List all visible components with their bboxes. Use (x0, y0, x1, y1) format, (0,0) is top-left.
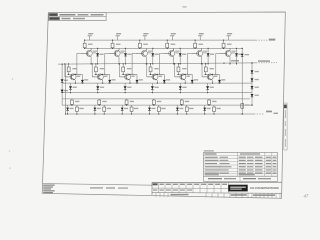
node collector junction 5 (195, 48, 196, 49)
wire base feed 1 (77, 52, 81, 54)
diode CR32 (97, 83, 99, 86)
wire emitter drop row2 1 (74, 80, 76, 83)
diode CR31 (70, 83, 72, 86)
label CR13 (155, 54, 159, 55)
transistor Q22 (92, 74, 103, 80)
diode CR41 (67, 105, 69, 108)
diode CR26 (219, 74, 221, 80)
label bias line (231, 60, 239, 62)
wire base feed 2 (105, 52, 109, 54)
wire R25 to node (177, 72, 179, 75)
wire ground return rail (65, 113, 254, 115)
label CR55 (245, 54, 249, 55)
label R32 value (102, 101, 106, 102)
label R44 value (161, 108, 165, 109)
label R13 value (143, 44, 148, 45)
fold mark (12, 78, 14, 80)
diode CR28 (61, 79, 64, 82)
diode CR42 (94, 105, 96, 108)
svg-text:47: 47 (304, 194, 309, 199)
label CR51 (255, 71, 259, 72)
node emitter rail junction 3 (146, 63, 147, 64)
resistor R26 (205, 64, 207, 67)
wire stage node 5 (177, 73, 192, 75)
label R16 value (227, 44, 232, 45)
resistor R35 (181, 99, 183, 100)
resistor R52 (241, 104, 244, 109)
label CR53 (255, 87, 259, 88)
label CR14 (182, 54, 186, 55)
label CR16 (238, 54, 242, 55)
wire ground return dashed tail (254, 113, 264, 115)
wire lower rail B (62, 92, 252, 94)
resistor R42 (103, 105, 105, 107)
label R23 value (127, 68, 131, 69)
diode CR24 (163, 74, 165, 80)
resistor R14 (166, 40, 168, 43)
wire base feed 5 (187, 52, 191, 54)
wire emitter drop row2 2 (102, 80, 104, 83)
label Q14 (175, 51, 179, 52)
fold mark (9, 167, 11, 169)
label Q11 (93, 51, 97, 52)
resistor R31 (71, 99, 73, 100)
resistor R41 (76, 105, 78, 107)
diode CR54 (251, 94, 254, 97)
label CR23 (139, 79, 143, 80)
wire emitter drop row2 3 (129, 80, 131, 83)
wire base drop 2 (91, 64, 93, 77)
label CR35 (182, 87, 186, 88)
wire stage node 3 (122, 73, 137, 75)
node emitter rail junction 6 (229, 63, 230, 64)
manufacturer logo (228, 185, 247, 192)
label R34 value (157, 101, 161, 102)
diode CR23 (136, 74, 138, 80)
wire emitter drop row2 6 (212, 80, 214, 83)
label R25 value (182, 68, 186, 69)
wire left bus 1 (61, 64, 63, 105)
diode CR13 (152, 48, 154, 53)
wire R23 to node (122, 72, 124, 75)
sheet border frame (42, 12, 285, 198)
label Q23 (131, 74, 135, 75)
label Q15 (203, 51, 207, 52)
wire lower rail C (62, 98, 250, 100)
transistor Q25 (175, 74, 186, 80)
label Q22 (104, 74, 108, 75)
resistor R21 (68, 64, 70, 67)
label R35 value (185, 101, 189, 102)
label CR36 (210, 87, 214, 88)
label CR21 (84, 79, 88, 80)
resistor R34 (153, 99, 155, 100)
resistor R22 (95, 64, 97, 67)
test point stub TP6 (228, 36, 230, 40)
diode CR46 (204, 105, 206, 108)
test point stub TP3 (144, 36, 146, 40)
transistor Q11 (81, 48, 93, 56)
label bias line end (258, 60, 270, 62)
top margin index mark B (183, 6, 187, 8)
wire emitter drop 4 (173, 57, 175, 64)
wire emitter drop 3 (145, 57, 147, 64)
diode CR34 (151, 83, 153, 86)
test point stub TP1 (89, 36, 91, 40)
wire emitter drop row2 4 (156, 80, 158, 83)
label R33 value (130, 101, 134, 102)
title block (152, 182, 282, 198)
resistor R15 (194, 40, 196, 43)
diode CR25 (191, 74, 193, 80)
node emitter rail junction 5 (201, 63, 202, 64)
transistor Q16 (220, 48, 232, 56)
label CR33 (127, 87, 131, 88)
resistor R13 (139, 40, 141, 43)
label R26 value (210, 68, 214, 69)
wire base feed 4 (160, 52, 164, 54)
diode CR15 (207, 48, 209, 53)
label Q16 (232, 51, 236, 52)
label CR32 (100, 87, 104, 88)
resistor R16 (223, 40, 225, 43)
wire right column bus (241, 48, 243, 114)
label R24 value (154, 68, 158, 69)
diode CR44 (149, 105, 151, 108)
diode CR55 (241, 54, 244, 56)
label CR26 (221, 79, 225, 80)
title block bottom cells (155, 193, 157, 197)
wire stage node 4 (149, 73, 164, 75)
label Q21 (77, 74, 81, 75)
diode CR16 (236, 48, 238, 53)
resistor R44 (158, 105, 160, 107)
label Q26 (214, 74, 218, 75)
node bias line junction (223, 62, 224, 63)
label R14 value (171, 44, 176, 45)
node emitter rail junction 2 (118, 63, 119, 64)
label CR42 (97, 108, 101, 109)
svg-text:D/A CONVERTER BOARD: D/A CONVERTER BOARD (250, 186, 278, 190)
wire R24 to node (150, 72, 152, 75)
label R21 value (72, 68, 76, 69)
label Q25 (187, 74, 191, 75)
test point stub TP4 (171, 36, 173, 40)
wire base feed 3 (132, 52, 136, 54)
diode CR11 (97, 48, 99, 53)
node left bus junction (62, 64, 63, 65)
wire emitter drop 2 (118, 57, 120, 64)
transistor Q13 (136, 48, 148, 56)
diode CR51 (251, 70, 254, 73)
label Q24 (159, 74, 163, 75)
label R45 value (189, 108, 193, 109)
revision history box (49, 13, 107, 21)
wire stage node 1 (67, 73, 82, 75)
resistor R23 (122, 64, 124, 67)
wire R26 to node (205, 72, 207, 75)
wire base drop 3 (119, 64, 121, 77)
wire base drop 5 (174, 64, 176, 77)
resistor R12 (112, 40, 114, 43)
label R52 (245, 104, 249, 105)
transistor Q26 (202, 74, 213, 80)
label R41 value (79, 108, 83, 109)
resistor R36 (208, 99, 210, 100)
label R46 value (216, 108, 220, 109)
notes block (43, 185, 55, 194)
wire emitter rail (62, 82, 252, 84)
label rail end (269, 39, 276, 41)
wire base drop 1 (64, 64, 66, 77)
diode CR29 (61, 90, 64, 93)
node collector junction 3 (139, 48, 140, 49)
bottom margin band line (43, 184, 152, 186)
label R12 value (116, 44, 121, 45)
label CR25 (194, 79, 198, 80)
diode CR45 (176, 105, 178, 108)
label R31 value (75, 101, 79, 102)
bottom band text (90, 187, 103, 188)
resistor R43 (131, 105, 133, 107)
fold mark (9, 150, 11, 152)
label CR45 (179, 108, 183, 109)
transistor Q12 (109, 48, 121, 56)
label Q12 (121, 51, 125, 52)
schematic circuit (58, 33, 278, 115)
diode CR12 (125, 48, 127, 53)
node collector junction 1 (84, 48, 85, 49)
diode CR36 (207, 83, 209, 86)
diode CR14 (179, 48, 181, 53)
wire base feed 6 (216, 52, 220, 54)
label CR29 (64, 90, 68, 91)
wire emitter drop 5 (201, 57, 203, 64)
wire emitter drop 1 (90, 57, 92, 64)
node emitter rail junction 4 (173, 63, 174, 64)
diode CR33 (124, 83, 126, 86)
transistor Q14 (163, 48, 175, 56)
node emitter rail junction 1 (91, 63, 92, 64)
wire base drop 6 (201, 64, 203, 77)
resistor R33 (126, 99, 128, 100)
wire diode chain bus (251, 63, 253, 105)
wire emitter drop row2 5 (184, 80, 186, 83)
resistor R46 (213, 105, 215, 107)
wire R22 to node (95, 72, 97, 75)
diode CR35 (179, 83, 181, 86)
label CR43 (124, 108, 128, 109)
test point stub TP2 (117, 36, 119, 40)
diode CR53 (251, 86, 254, 89)
label CR54 (255, 95, 259, 96)
label CR11 (99, 54, 103, 55)
resistor R24 (150, 64, 152, 67)
label CR28 (64, 80, 68, 81)
label CR46 (207, 108, 211, 109)
label R22 value (100, 68, 104, 69)
wire left bus 2 (65, 64, 67, 114)
diode CR52 (251, 78, 254, 81)
wire base bias rail (58, 63, 256, 64)
resistor R32 (98, 99, 100, 100)
wire node rail A (84, 47, 242, 49)
wire collector supply rail dashed tail (256, 39, 268, 41)
diode CR22 (109, 74, 111, 80)
label Q13 (148, 51, 152, 52)
transistor Q15 (191, 48, 203, 56)
transistor Q21 (65, 74, 76, 80)
application strip (284, 103, 287, 150)
parts list table (204, 150, 278, 176)
label CR44 (151, 108, 155, 109)
label CR24 (166, 79, 170, 80)
wire emitter drop 6 (229, 57, 231, 64)
label CR52 (255, 79, 259, 80)
label R15 value (199, 44, 204, 45)
diode CR43 (121, 105, 123, 108)
diode CR21 (81, 74, 83, 80)
wire collector supply rail (84, 39, 256, 41)
label ground return end (266, 111, 272, 113)
label CR31 (73, 87, 77, 88)
label R42 value (107, 108, 111, 109)
wire stage node 2 (94, 73, 109, 75)
label R36 value (212, 101, 216, 102)
label CR22 (111, 79, 115, 80)
label CR15 (210, 54, 214, 55)
transistor Q23 (120, 74, 131, 80)
wire stage node 6 (204, 73, 219, 75)
node collector junction 6 (223, 48, 224, 49)
node collector junction 4 (167, 48, 168, 49)
label CR34 (155, 87, 159, 88)
wire base bias rail dashed tail (256, 62, 277, 64)
label R43 value (134, 108, 138, 109)
test point stub TP5 (199, 36, 201, 40)
label CR12 (127, 54, 131, 55)
wire lower rail D (62, 104, 252, 106)
wire R21 to node (68, 72, 70, 75)
wire base drop 4 (146, 64, 148, 77)
node collector junction 2 (112, 48, 113, 49)
resistor R45 (186, 105, 188, 107)
resistor R11 (84, 40, 86, 43)
label CR41 (70, 108, 74, 109)
resistor R25 (177, 64, 179, 67)
label R11 value (88, 44, 93, 45)
transistor Q24 (147, 74, 158, 80)
reference strip (204, 176, 278, 181)
